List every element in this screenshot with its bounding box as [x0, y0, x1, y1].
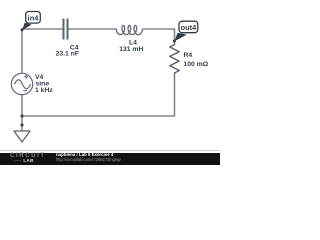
svg-text:out4: out4 [181, 23, 197, 32]
svg-text:131 mH: 131 mH [119, 46, 143, 53]
svg-text:in4: in4 [28, 14, 40, 23]
svg-text:1 kHz: 1 kHz [35, 87, 53, 94]
svg-text:23.1 nF: 23.1 nF [56, 50, 79, 57]
svg-text:100 mΩ: 100 mΩ [184, 61, 209, 68]
svg-text:R4: R4 [184, 52, 193, 59]
